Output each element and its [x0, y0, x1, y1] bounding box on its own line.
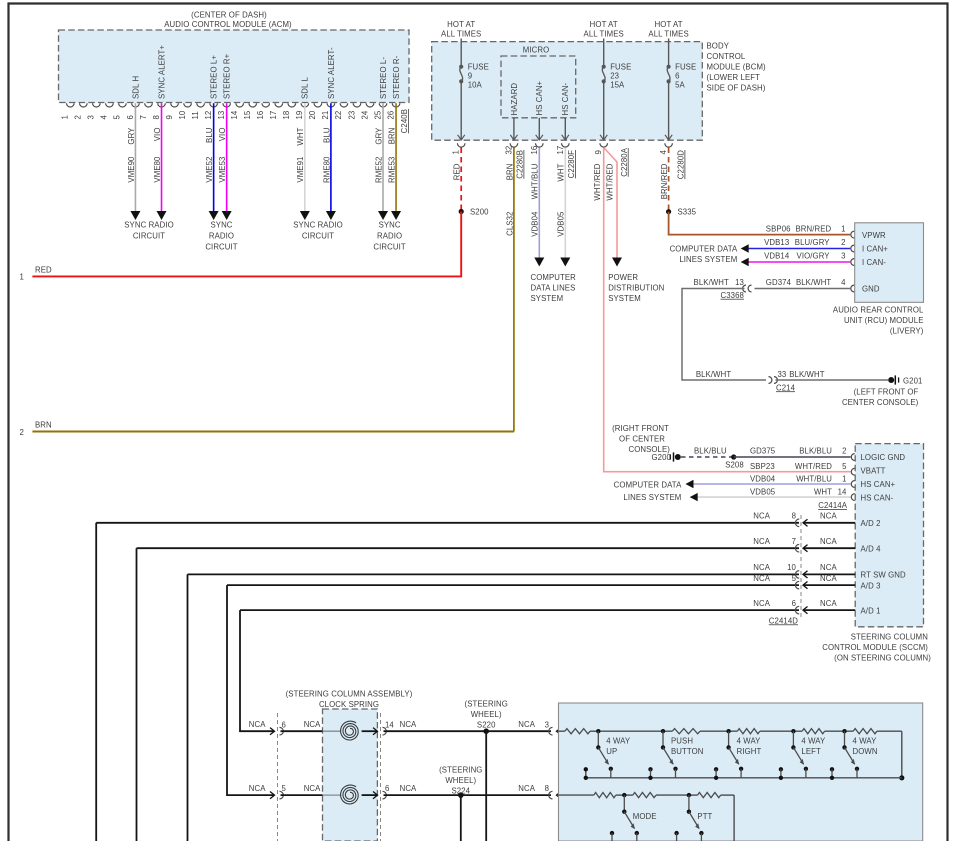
- svg-text:ALL TIMES: ALL TIMES: [648, 29, 688, 38]
- wire VME91 WHT from ACM pin 19: [304, 103, 306, 211]
- svg-text:VIO/GRY: VIO/GRY: [797, 252, 831, 261]
- switch MODE: [622, 793, 626, 797]
- svg-text:WHT/RED: WHT/RED: [795, 462, 832, 471]
- svg-text:BLK/WHT: BLK/WHT: [694, 278, 729, 287]
- svg-text:BRN: BRN: [35, 420, 52, 429]
- wire hot feed into BCM at x=668.6: [668, 39, 670, 67]
- wire VME90 GRY from ACM pin 6: [134, 103, 136, 211]
- wire down from S224: [460, 795, 462, 841]
- left vertical wire NCA (RT SW GND): [187, 574, 189, 841]
- switch bus row1: [586, 777, 902, 779]
- svg-text:7: 7: [139, 115, 148, 119]
- svg-text:VDB05: VDB05: [750, 487, 776, 496]
- svg-text:24: 24: [360, 110, 369, 119]
- svg-text:21: 21: [321, 111, 330, 120]
- connector dashed boundary right of clock spring: [380, 713, 382, 841]
- row1 interconnect wires: [598, 730, 672, 732]
- svg-text:6: 6: [792, 599, 796, 608]
- wire NCA (pin 10) from SCCM to left vertical at x=187.5: [188, 573, 800, 575]
- svg-text:CENTER CONSOLE): CENTER CONSOLE): [842, 398, 919, 407]
- svg-text:WHEEL): WHEEL): [445, 776, 476, 785]
- SCCM module box (STEERING COLUMN CONTROL MODULE): [855, 444, 923, 627]
- MICRO sub-box: [501, 56, 576, 118]
- switch row 1 top wire: [559, 730, 565, 732]
- svg-text:NCA: NCA: [518, 784, 535, 793]
- wire NCA (pin 8) from SCCM to left vertical at x=96.2: [96, 522, 799, 524]
- svg-text:NCA: NCA: [753, 537, 770, 546]
- wire VME80 VIO from ACM pin 8: [161, 103, 163, 211]
- svg-text:NCA: NCA: [820, 537, 837, 546]
- arrow end of wire RME52: [378, 211, 388, 220]
- SCCM pins: [851, 454, 854, 461]
- svg-text:(LEFT FRONT OF: (LEFT FRONT OF: [854, 387, 919, 396]
- wire RED from BCM pin 1 (dashed) to S200: [460, 148, 462, 212]
- svg-text:19: 19: [295, 111, 304, 120]
- switch 4 WAY RIGHT: [726, 729, 730, 733]
- wire VME52 BLU from ACM pin 12: [213, 103, 215, 211]
- svg-text:A/D 1: A/D 1: [861, 606, 881, 615]
- svg-text:8: 8: [545, 784, 549, 793]
- svg-text:OF CENTER: OF CENTER: [619, 434, 665, 443]
- splice S224: [458, 792, 464, 798]
- arrow end of wire RME80: [326, 211, 336, 220]
- svg-text:HAZARD: HAZARD: [510, 83, 519, 116]
- svg-text:(ON STEERING COLUMN): (ON STEERING COLUMN): [834, 654, 931, 663]
- svg-text:5: 5: [113, 115, 122, 120]
- switch row 2 top wire: [559, 794, 594, 796]
- connector dashed boundary left of clock spring: [277, 713, 279, 841]
- svg-text:NCA: NCA: [820, 512, 837, 521]
- svg-text:8: 8: [792, 512, 796, 521]
- steering wire row at y=731.2: [270, 728, 275, 735]
- wire NCA (pin 6) from SCCM to left vertical at x=240: [240, 609, 799, 611]
- svg-text:(RIGHT FRONT: (RIGHT FRONT: [612, 424, 669, 433]
- svg-text:S224: S224: [451, 787, 470, 796]
- svg-text:VME52: VME52: [205, 157, 214, 183]
- svg-text:HS CAN-: HS CAN-: [561, 82, 570, 115]
- splice S200: [459, 209, 464, 214]
- svg-text:COMPUTER DATA: COMPUTER DATA: [614, 480, 682, 489]
- svg-text:3: 3: [545, 720, 549, 729]
- svg-text:C2414A: C2414A: [818, 501, 847, 510]
- svg-text:GRY: GRY: [374, 127, 383, 145]
- svg-text:BRN/RED: BRN/RED: [660, 163, 669, 199]
- arrow end of wire VME90: [130, 211, 140, 220]
- svg-text:BRN: BRN: [387, 128, 396, 145]
- svg-text:BRN/RED: BRN/RED: [796, 224, 832, 233]
- svg-text:C2414D: C2414D: [769, 616, 798, 625]
- svg-text:BLU: BLU: [205, 127, 214, 143]
- svg-text:6: 6: [126, 115, 135, 119]
- svg-text:AUDIO REAR CONTROL: AUDIO REAR CONTROL: [833, 305, 924, 314]
- svg-text:VIO: VIO: [218, 128, 227, 142]
- arrow end of wire VME52: [209, 211, 219, 220]
- svg-text:4 WAY: 4 WAY: [853, 736, 878, 745]
- switch PUSH BUTTON: [661, 729, 665, 733]
- connector C2414D dashed boundary: [800, 515, 802, 620]
- svg-text:VDB14: VDB14: [764, 252, 790, 261]
- inline connector C3368: [743, 285, 746, 292]
- svg-text:WHT/RED: WHT/RED: [606, 163, 615, 200]
- svg-text:CONTROL: CONTROL: [707, 52, 746, 61]
- svg-text:LINES SYSTEM: LINES SYSTEM: [623, 493, 681, 502]
- svg-text:RED: RED: [35, 265, 52, 274]
- svg-text:1: 1: [61, 115, 70, 119]
- splice S220: [483, 728, 489, 734]
- svg-text:NCA: NCA: [249, 784, 266, 793]
- svg-text:I CAN-: I CAN-: [862, 258, 886, 267]
- svg-text:LINES SYSTEM: LINES SYSTEM: [679, 255, 737, 264]
- svg-text:9: 9: [594, 150, 603, 154]
- switch 4 WAY LEFT: [791, 729, 795, 733]
- svg-text:15A: 15A: [610, 81, 625, 90]
- svg-text:17: 17: [556, 146, 565, 155]
- wire 2 BRN left to page edge: [32, 431, 514, 433]
- svg-text:STEREO R+: STEREO R+: [223, 53, 232, 99]
- wire VDB14 VIO/GRY to RCU I CAN-: [745, 261, 850, 263]
- svg-text:LEFT: LEFT: [801, 747, 821, 756]
- svg-text:DOWN: DOWN: [853, 747, 878, 756]
- svg-text:23: 23: [347, 111, 356, 120]
- svg-text:14: 14: [230, 110, 239, 119]
- svg-text:9: 9: [468, 72, 472, 81]
- svg-text:VME91: VME91: [296, 157, 305, 183]
- svg-text:WHT/RED: WHT/RED: [593, 163, 602, 200]
- svg-text:DISTRIBUTION: DISTRIBUTION: [608, 284, 664, 293]
- left vertical wire NCA (A/D 3) to steering row 2: [227, 585, 274, 795]
- svg-text:2: 2: [842, 447, 846, 456]
- svg-text:MODE: MODE: [633, 812, 657, 821]
- wire GD375 BLK/BLU from S208 to SCCM LOGIC GND: [734, 456, 851, 458]
- svg-text:GD374: GD374: [766, 278, 792, 287]
- left vertical wire NCA (A/D 1) to steering row 1: [240, 610, 274, 731]
- clock spring coil: [341, 785, 359, 804]
- svg-text:SDL H: SDL H: [131, 76, 140, 99]
- svg-text:6: 6: [675, 72, 679, 81]
- svg-text:FUSE: FUSE: [610, 62, 631, 71]
- svg-text:VME80: VME80: [153, 156, 162, 183]
- svg-text:SYSTEM: SYSTEM: [608, 294, 641, 303]
- left vertical wire NCA (A/D 4): [136, 548, 138, 841]
- wire CLS32 BRN from BCM pin 32: [513, 148, 515, 432]
- svg-text:NCA: NCA: [400, 784, 417, 793]
- clock spring coil: [341, 721, 359, 740]
- svg-text:STEREO L+: STEREO L+: [210, 55, 219, 99]
- svg-text:17: 17: [269, 111, 278, 120]
- wire SBP06 BRN/RED from S335 to RCU VPWR: [669, 212, 851, 235]
- svg-text:13: 13: [217, 111, 226, 120]
- svg-text:WHEEL): WHEEL): [471, 710, 502, 719]
- svg-text:C2280B: C2280B: [516, 150, 525, 179]
- wire VDB13 BLU/GRY to RCU I CAN+: [745, 248, 850, 250]
- svg-text:AUDIO CONTROL MODULE (ACM): AUDIO CONTROL MODULE (ACM): [164, 20, 292, 29]
- ACM module box (AUDIO CONTROL MODULE): [59, 30, 410, 103]
- svg-text:SYNC RADIO: SYNC RADIO: [124, 221, 174, 230]
- svg-text:16: 16: [256, 111, 265, 120]
- svg-text:BODY: BODY: [707, 42, 730, 51]
- wire NCA (pin 5) from SCCM to left vertical at x=227: [227, 584, 799, 586]
- svg-text:RADIO: RADIO: [377, 232, 402, 241]
- svg-text:I CAN+: I CAN+: [862, 245, 888, 254]
- fuse 9 10A: [459, 65, 463, 69]
- svg-text:NCA: NCA: [820, 563, 837, 572]
- wire VDB05 WHT from BCM pin 17: [564, 148, 566, 259]
- svg-text:12: 12: [204, 111, 213, 120]
- svg-text:SDL L: SDL L: [301, 77, 310, 99]
- svg-text:RIGHT: RIGHT: [737, 747, 762, 756]
- svg-text:13: 13: [735, 278, 744, 287]
- svg-text:VDB04: VDB04: [750, 475, 776, 484]
- arrow end of wire VME53: [222, 211, 232, 220]
- svg-text:GRY: GRY: [127, 127, 136, 145]
- svg-text:UP: UP: [606, 747, 617, 756]
- svg-text:BLU/GRY: BLU/GRY: [795, 238, 830, 247]
- switch 4 WAY DOWN: [842, 729, 846, 733]
- svg-text:COMPUTER: COMPUTER: [531, 273, 577, 282]
- svg-text:11: 11: [191, 111, 200, 119]
- svg-text:STEERING COLUMN: STEERING COLUMN: [851, 633, 928, 642]
- row1 right end down to bus: [901, 731, 903, 778]
- wire SBP23 WHT/RED from BCM pin 9 long run to SCCM VBATT: [604, 148, 851, 472]
- RCU module box (AUDIO REAR CONTROL UNIT): [855, 223, 924, 302]
- svg-text:BLK/BLU: BLK/BLU: [694, 447, 727, 456]
- resistor (MODE branch): [633, 793, 656, 798]
- svg-text:ALL TIMES: ALL TIMES: [441, 29, 481, 38]
- svg-text:NCA: NCA: [400, 720, 417, 729]
- svg-text:WHT: WHT: [296, 127, 305, 145]
- svg-text:POWER: POWER: [608, 273, 638, 282]
- wire fuse output: [460, 81, 462, 139]
- wire VDB05 WHT to SCCM HS CAN-: [694, 496, 851, 498]
- wire 1 RED solid down and left to page edge: [32, 212, 461, 277]
- svg-text:1: 1: [452, 150, 461, 154]
- svg-text:C3368: C3368: [721, 291, 744, 300]
- svg-text:HS CAN+: HS CAN+: [861, 480, 896, 489]
- svg-text:14: 14: [838, 487, 847, 496]
- switch 4 WAY UP: [596, 729, 600, 733]
- svg-text:S208: S208: [725, 460, 744, 469]
- svg-text:BLK/BLU: BLK/BLU: [799, 447, 832, 456]
- wire down from S220: [485, 731, 487, 841]
- svg-text:3: 3: [87, 115, 96, 119]
- svg-text:23: 23: [610, 72, 619, 81]
- svg-text:(LOWER LEFT: (LOWER LEFT: [707, 73, 761, 82]
- svg-text:COMPUTER DATA: COMPUTER DATA: [670, 244, 738, 253]
- resistor (row2 feed): [594, 793, 616, 798]
- svg-text:1: 1: [842, 475, 846, 484]
- svg-text:PTT: PTT: [697, 812, 712, 821]
- wire hot feed into BCM at x=603.7: [603, 39, 605, 67]
- row2 right end down: [733, 795, 735, 841]
- svg-text:RME53: RME53: [387, 157, 396, 184]
- svg-text:VDB05: VDB05: [557, 211, 566, 237]
- wire VDB04 WHT/BLU to SCCM HS CAN+: [690, 483, 851, 485]
- resistor (4 WAY DOWN branch): [802, 729, 825, 734]
- svg-text:CIRCUIT: CIRCUIT: [133, 232, 165, 241]
- svg-text:VBATT: VBATT: [861, 467, 886, 476]
- svg-text:BUTTON: BUTTON: [671, 747, 704, 756]
- svg-text:ALL TIMES: ALL TIMES: [584, 29, 624, 38]
- svg-text:SYNC RADIO: SYNC RADIO: [293, 221, 343, 230]
- wire BLK/BLU dashed from G200 to S208: [681, 456, 734, 458]
- ACM connector pins 1-26: [67, 103, 75, 107]
- svg-text:NCA: NCA: [753, 563, 770, 572]
- wire RME53 BRN from ACM pin 26: [395, 103, 397, 211]
- svg-text:LOGIC GND: LOGIC GND: [861, 453, 906, 462]
- svg-text:8: 8: [152, 115, 161, 119]
- steering wheel switch box: [559, 703, 923, 841]
- svg-text:VME53: VME53: [218, 157, 227, 183]
- svg-text:CIRCUIT: CIRCUIT: [205, 243, 237, 252]
- svg-text:S220: S220: [477, 721, 496, 730]
- svg-text:(LIVERY): (LIVERY): [890, 326, 924, 335]
- svg-text:(CENTER OF DASH): (CENTER OF DASH): [191, 10, 267, 19]
- svg-text:DATA LINES: DATA LINES: [531, 284, 576, 293]
- arrow end of wire RME53: [391, 211, 401, 220]
- svg-text:4 WAY: 4 WAY: [737, 736, 762, 745]
- svg-text:25: 25: [373, 110, 382, 119]
- svg-text:A/D 2: A/D 2: [861, 519, 881, 528]
- svg-text:4 WAY: 4 WAY: [606, 736, 631, 745]
- svg-text:CIRCUIT: CIRCUIT: [373, 243, 405, 252]
- wire RME52 GRY from ACM pin 25: [382, 103, 384, 211]
- svg-text:NCA: NCA: [304, 784, 321, 793]
- svg-text:MODULE (BCM): MODULE (BCM): [707, 63, 767, 72]
- svg-text:20: 20: [308, 110, 317, 119]
- svg-text:BLK/WHT: BLK/WHT: [789, 370, 824, 379]
- BCM module box (BODY CONTROL MODULE): [432, 42, 703, 141]
- resistor (end of row 1): [853, 729, 877, 734]
- svg-text:5A: 5A: [675, 81, 685, 90]
- svg-text:(STEERING: (STEERING: [439, 766, 482, 775]
- svg-text:RED: RED: [453, 163, 462, 180]
- svg-text:RME52: RME52: [374, 157, 383, 184]
- resistor (4 WAY LEFT branch): [737, 729, 760, 734]
- wire hot feed into BCM at x=461.2: [460, 39, 462, 67]
- svg-text:6: 6: [282, 720, 286, 729]
- wire WHT/RED from BCM pin 9 branch to power distribution: [604, 148, 617, 259]
- svg-text:RADIO: RADIO: [209, 232, 234, 241]
- svg-text:G200: G200: [652, 453, 672, 462]
- wire VME53 VIO from ACM pin 13: [226, 103, 228, 211]
- svg-text:C2280A: C2280A: [620, 147, 629, 176]
- svg-text:9: 9: [165, 115, 174, 119]
- arrow end of wire VME80: [157, 211, 167, 220]
- svg-text:G201: G201: [903, 376, 922, 385]
- svg-text:2: 2: [20, 428, 24, 437]
- left vertical wire NCA (A/D 2): [95, 523, 97, 841]
- svg-text:WHT: WHT: [814, 487, 832, 496]
- svg-text:RME80: RME80: [322, 156, 331, 183]
- svg-text:STEREO R-: STEREO R-: [392, 55, 401, 99]
- svg-text:SYNC: SYNC: [210, 221, 232, 230]
- wire fuse output: [603, 81, 605, 139]
- svg-text:6: 6: [385, 784, 389, 793]
- svg-text:SYNC ALERT-: SYNC ALERT-: [327, 47, 336, 99]
- wire GD374 BLK/WHT from RCU GND: [755, 288, 851, 290]
- svg-text:NCA: NCA: [753, 512, 770, 521]
- svg-text:4: 4: [100, 115, 109, 120]
- svg-text:SYNC ALERT+: SYNC ALERT+: [157, 45, 166, 99]
- svg-text:(STEERING COLUMN ASSEMBLY): (STEERING COLUMN ASSEMBLY): [286, 689, 413, 698]
- svg-text:NCA: NCA: [753, 599, 770, 608]
- svg-text:SBP23: SBP23: [750, 462, 775, 471]
- svg-text:STEREO L-: STEREO L-: [379, 57, 388, 99]
- svg-text:22: 22: [334, 111, 343, 120]
- svg-text:3: 3: [841, 252, 845, 261]
- svg-text:4: 4: [659, 150, 668, 155]
- fuse 23 15A: [602, 65, 606, 69]
- svg-text:CLS32: CLS32: [505, 212, 514, 236]
- steering wire row at y=795.1: [270, 792, 275, 799]
- svg-text:33: 33: [778, 370, 787, 379]
- wire BLK/WHT from C3368 down to ground run: [682, 289, 766, 381]
- svg-text:C214: C214: [776, 383, 796, 392]
- svg-text:NCA: NCA: [820, 599, 837, 608]
- svg-text:S335: S335: [678, 208, 697, 217]
- BCM connector pins: [457, 143, 465, 147]
- svg-text:FUSE: FUSE: [675, 62, 696, 71]
- svg-text:2: 2: [74, 115, 83, 119]
- RCU pins 1-4: [851, 231, 854, 238]
- svg-text:UNIT (RCU) MODULE: UNIT (RCU) MODULE: [844, 316, 924, 325]
- svg-text:10: 10: [178, 110, 187, 119]
- wire NCA (pin 7) from SCCM to left vertical at x=136.5: [137, 547, 800, 549]
- svg-text:5: 5: [842, 462, 847, 471]
- svg-text:SYNC: SYNC: [379, 221, 401, 230]
- svg-text:4 WAY: 4 WAY: [801, 736, 826, 745]
- svg-text:SBP06: SBP06: [766, 224, 791, 233]
- wire RME80 BLU from ACM pin 21: [330, 103, 332, 211]
- resistor (4 WAY RIGHT branch): [672, 729, 700, 734]
- inline connector C214: [769, 377, 772, 384]
- svg-text:S200: S200: [470, 207, 489, 216]
- svg-text:VDB13: VDB13: [764, 238, 789, 247]
- svg-text:NCA: NCA: [304, 720, 321, 729]
- svg-text:HOT AT: HOT AT: [655, 20, 683, 29]
- svg-text:5: 5: [792, 574, 797, 583]
- svg-text:VPWR: VPWR: [862, 231, 886, 240]
- svg-text:HOT AT: HOT AT: [447, 20, 475, 29]
- arrow end of wire VME91: [300, 211, 310, 220]
- svg-text:18: 18: [282, 111, 291, 120]
- svg-text:HS CAN+: HS CAN+: [535, 80, 544, 115]
- svg-text:10: 10: [787, 563, 796, 572]
- svg-text:WHT: WHT: [557, 163, 566, 181]
- svg-text:CIRCUIT: CIRCUIT: [302, 232, 334, 241]
- splice S208: [731, 454, 736, 459]
- svg-text:NCA: NCA: [518, 720, 535, 729]
- row2 interconnect wires: [624, 794, 633, 796]
- wire BLK/WHT from C214 to G201: [776, 379, 889, 381]
- svg-text:FUSE: FUSE: [468, 62, 489, 71]
- svg-text:CONTROL MODULE (SCCM): CONTROL MODULE (SCCM): [822, 643, 928, 652]
- svg-text:32: 32: [504, 146, 513, 155]
- svg-text:PUSH: PUSH: [671, 736, 693, 745]
- svg-text:(STEERING: (STEERING: [465, 700, 508, 709]
- splice S335: [666, 209, 671, 214]
- svg-text:2: 2: [841, 238, 845, 247]
- svg-text:BLU: BLU: [322, 127, 331, 143]
- svg-text:GND: GND: [862, 285, 880, 294]
- wire VDB04 WHT/BLU from BCM pin 16: [538, 148, 540, 259]
- svg-text:RT SW GND: RT SW GND: [861, 571, 906, 580]
- svg-text:4: 4: [841, 278, 846, 287]
- svg-text:15: 15: [243, 110, 252, 119]
- svg-text:BLK/WHT: BLK/WHT: [796, 278, 831, 287]
- svg-text:CLOCK SPRING: CLOCK SPRING: [319, 700, 379, 709]
- ground G201: [888, 377, 894, 383]
